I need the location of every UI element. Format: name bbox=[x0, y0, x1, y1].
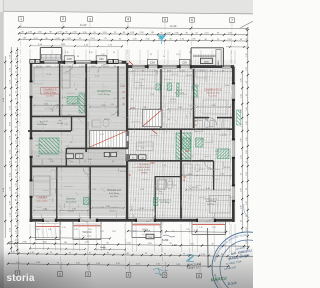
red dashes along party wall bbox=[123, 61, 134, 104]
corridor texts left unit bbox=[36, 156, 114, 163]
bottom wall with door openings bbox=[30, 219, 235, 222]
green radiator row mid room bbox=[67, 97, 78, 105]
left dimension line col 2 bbox=[9, 47, 12, 252]
terrace bottom far-left bbox=[36, 222, 61, 240]
top-right balcony bump bbox=[191, 48, 223, 67]
corridor dense texture strip left unit bbox=[31, 150, 124, 166]
terrace right-center bbox=[132, 222, 161, 238]
interior wall right-unit vertical x161 bbox=[160, 69, 162, 128]
interior wall left-unit vertical A bbox=[59, 64, 61, 117]
interior face line below top wall left bbox=[33, 66, 125, 68]
room label CAMERA bottom-left bbox=[36, 197, 48, 203]
bottom connector extension lines bbox=[30, 224, 235, 253]
green stair zone left unit bbox=[39, 138, 59, 154]
room label Dormitor bottom mid bbox=[66, 198, 78, 204]
canopy box C3H left bbox=[64, 56, 74, 62]
interior wall left-unit horizontal y116 bbox=[30, 115, 87, 117]
interior room dimension lines with ticks bbox=[33, 104, 231, 212]
green tag bottom right unit bbox=[153, 198, 157, 206]
interior wall left-unit horizontal y148 bbox=[67, 147, 128, 149]
door arc right-unit y161 bbox=[204, 161, 212, 169]
outer wall right bbox=[232, 67, 235, 223]
bottom dimension line row C bbox=[7, 262, 230, 267]
canopy boxes right section bbox=[147, 60, 190, 65]
sheet top edge line bbox=[3, 11, 253, 14]
room texture upper rooms bbox=[42, 54, 62, 62]
bottom dimension line row B dense bbox=[8, 252, 253, 258]
door arc camera zi bbox=[52, 104, 60, 112]
grid bubble 4 bottom bbox=[126, 262, 131, 277]
furniture top-left room camera zi bbox=[34, 68, 57, 109]
interior wall right-unit vertical x181 dark bbox=[180, 129, 182, 219]
door tag boxes mid left unit bbox=[66, 152, 116, 158]
furniture right big room bbox=[196, 70, 227, 114]
interior small dimension strokes bbox=[36, 69, 227, 220]
interior wall left-unit vertical B with green riser bbox=[79, 64, 86, 152]
watermark gradient band bbox=[0, 246, 253, 288]
interior face line above bottom wall bbox=[30, 216, 234, 218]
bottom dimension row 1 bbox=[29, 236, 111, 239]
bottom dimension row 0 segments bbox=[127, 229, 227, 233]
text block TW right unit bbox=[138, 164, 150, 174]
svg-text:ROMANIA ORDINUL ARHITECTILOR D: ROMANIA ORDINUL ARHITECTILOR DIN bbox=[0, 0, 247, 262]
top connector extension lines bbox=[30, 49, 235, 64]
room label DORMITOR MATR left unit bbox=[97, 90, 111, 96]
interior wall right-unit vertical x155 bottom bbox=[154, 176, 156, 219]
top dimension line row C bbox=[18, 38, 248, 42]
faint second stamp arc top right bbox=[244, 204, 249, 218]
overlapping sheet diagonal top-right bbox=[241, 21, 254, 28]
green zone 3 right unit bbox=[196, 138, 204, 147]
stamp circle bottom right bbox=[0, 0, 253, 288]
handwriting scribble marks bottom bbox=[100, 235, 175, 250]
bath fixtures right unit bottom bbox=[158, 180, 173, 189]
bathroom fixtures right-unit lower bbox=[184, 164, 201, 175]
grid bubble 5 top bbox=[163, 17, 168, 22]
grid bubble 1 top bbox=[19, 16, 24, 21]
grid bubble 7 top bbox=[230, 18, 235, 23]
interior wall left-unit vertical x71 corridor bbox=[71, 116, 73, 131]
tag boxes FaC20 right unit bbox=[130, 155, 146, 160]
door swing arcs various bbox=[41, 64, 215, 222]
window tag boxes left of bump bbox=[30, 59, 40, 63]
stair flight right unit bbox=[143, 110, 163, 127]
terrace TERASA left-center bbox=[73, 222, 101, 240]
green strip outside right wall bbox=[237, 110, 241, 125]
grid bubble 2 bottom bbox=[58, 262, 63, 276]
door jamb nubs at openings bbox=[30, 61, 235, 223]
bed furniture right-unit top room bbox=[134, 70, 156, 88]
dark vertical fold line right bbox=[207, 228, 210, 268]
plan gray wash bbox=[29, 60, 236, 222]
top dimension line row D partial bbox=[29, 44, 247, 48]
interior wall right-unit vertical x194 bbox=[193, 69, 195, 128]
tag box under terrace right-center bbox=[146, 234, 154, 239]
interior wall left-unit vertical x118 hall bbox=[117, 66, 119, 116]
cyan survey flag marker bbox=[158, 35, 167, 44]
paper background bbox=[0, 0, 253, 288]
room label CAMERA DE ZI right unit bbox=[204, 89, 222, 98]
right dimension line col 2 bbox=[246, 29, 249, 250]
wc fixtures right unit bbox=[137, 142, 154, 151]
interior wall right-unit vertical x213 bbox=[213, 161, 215, 190]
stair flight left unit with red pitch line bbox=[90, 131, 127, 148]
red dashes right-unit bath wall bbox=[195, 121, 197, 129]
top dimension line row B bbox=[18, 31, 248, 35]
door arc hall left unit bbox=[111, 108, 118, 115]
scan speckle noise bbox=[11, 25, 249, 265]
red dashes right-unit mid walls bbox=[129, 151, 189, 175]
handwritten annotation bottom right bbox=[162, 239, 201, 270]
micro texts under top wall bbox=[36, 66, 224, 73]
top wall left section with window openings bbox=[32, 61, 127, 65]
kitchen fixtures mid room left unit bbox=[62, 66, 70, 88]
grid axis dash-dot lines bbox=[18, 23, 232, 270]
top-left balcony bump bbox=[40, 48, 61, 61]
fixtures right-unit bottom mid rooms bbox=[158, 179, 173, 190]
grid bubble 1 bottom bbox=[15, 262, 20, 276]
room label Vestibul right unit bbox=[159, 199, 172, 205]
top dimension line row A bbox=[18, 23, 249, 30]
grid bubble 3 top bbox=[88, 17, 93, 22]
grid bubble 3 bottom bbox=[86, 262, 91, 277]
scanner edge top strip bbox=[0, 0, 253, 12]
bath fixtures left unit bbox=[92, 119, 109, 127]
right dimension line col 1 bbox=[240, 70, 243, 232]
interior wall left-unit vertical bottom x90 bbox=[89, 167, 91, 219]
interior wall right-unit horizontal y129 bbox=[128, 128, 234, 130]
bed furniture bottom-right room bbox=[210, 196, 231, 214]
bottom dimension short segments row bbox=[29, 248, 126, 251]
green stair zone right unit bbox=[176, 133, 191, 159]
scanner edge left strip bbox=[0, 0, 3, 288]
interior wall right-unit horizontal y177 partial bbox=[155, 176, 181, 178]
grid bubble 5 bottom bbox=[162, 262, 167, 278]
micro text row above bottom wall bbox=[36, 227, 228, 233]
top wall right section with window openings bbox=[126, 65, 234, 69]
interior face line below top wall right bbox=[128, 70, 232, 72]
interior wall left-unit vertical x66 bbox=[65, 148, 67, 167]
interior wall left-unit horizontal y131 bbox=[28, 130, 71, 132]
grid bubble 6 bottom bbox=[197, 262, 202, 278]
bathroom fixtures right-unit mid bbox=[195, 120, 215, 131]
green radiator blocks right unit bbox=[156, 83, 198, 97]
green zone 2 right unit bbox=[182, 138, 191, 149]
left dimension line col 1 bbox=[3, 56, 6, 238]
outer wall left bbox=[30, 61, 33, 223]
bottom dimension line row A bbox=[7, 241, 250, 247]
room label Dormitor nr2 bbox=[107, 189, 121, 198]
interior wall left-unit horizontal y166 bbox=[30, 165, 128, 167]
interior wall right-unit horizontal y117 bbox=[194, 118, 232, 126]
room label Camera de zi bottom right bbox=[204, 198, 218, 206]
room label CAMERA ZI left bbox=[41, 88, 60, 98]
watermark corner shade bbox=[0, 242, 150, 288]
interior wall right-unit horizontal y161 bbox=[128, 160, 214, 162]
bed furniture bottom-left room bbox=[34, 170, 57, 196]
cyan scribble bottom center bbox=[153, 268, 168, 276]
grid bubble 4 top bbox=[126, 17, 131, 22]
cyan scribble right of center bbox=[187, 254, 195, 262]
grid bubble 6 top bbox=[190, 17, 195, 22]
canopy box C3V left bbox=[96, 56, 107, 62]
kitchen label right unit bbox=[175, 89, 185, 95]
bath label left unit corridor bbox=[37, 120, 63, 126]
storia watermark text bbox=[7, 273, 35, 284]
red dashes right-unit lower bath bbox=[183, 177, 186, 180]
terrace far-right bbox=[192, 222, 226, 235]
micro text row under top bump band bbox=[65, 52, 191, 58]
interior wall left-unit vertical bottom x57 bbox=[56, 167, 58, 219]
red marks right unit mid bbox=[131, 108, 157, 134]
window tag boxes right of canopy bbox=[108, 59, 118, 63]
green tag bottom mid bbox=[84, 198, 90, 205]
green patch right room mid bbox=[217, 149, 229, 159]
interior dim line right rooms y175 bbox=[181, 174, 232, 177]
interior micro dimension texts bbox=[36, 73, 235, 213]
party wall center bbox=[126, 63, 129, 222]
left dimension line col 3 bbox=[15, 47, 18, 255]
room texture hatch overall bbox=[33, 66, 125, 216]
grid bubble 2 top bbox=[61, 17, 66, 22]
